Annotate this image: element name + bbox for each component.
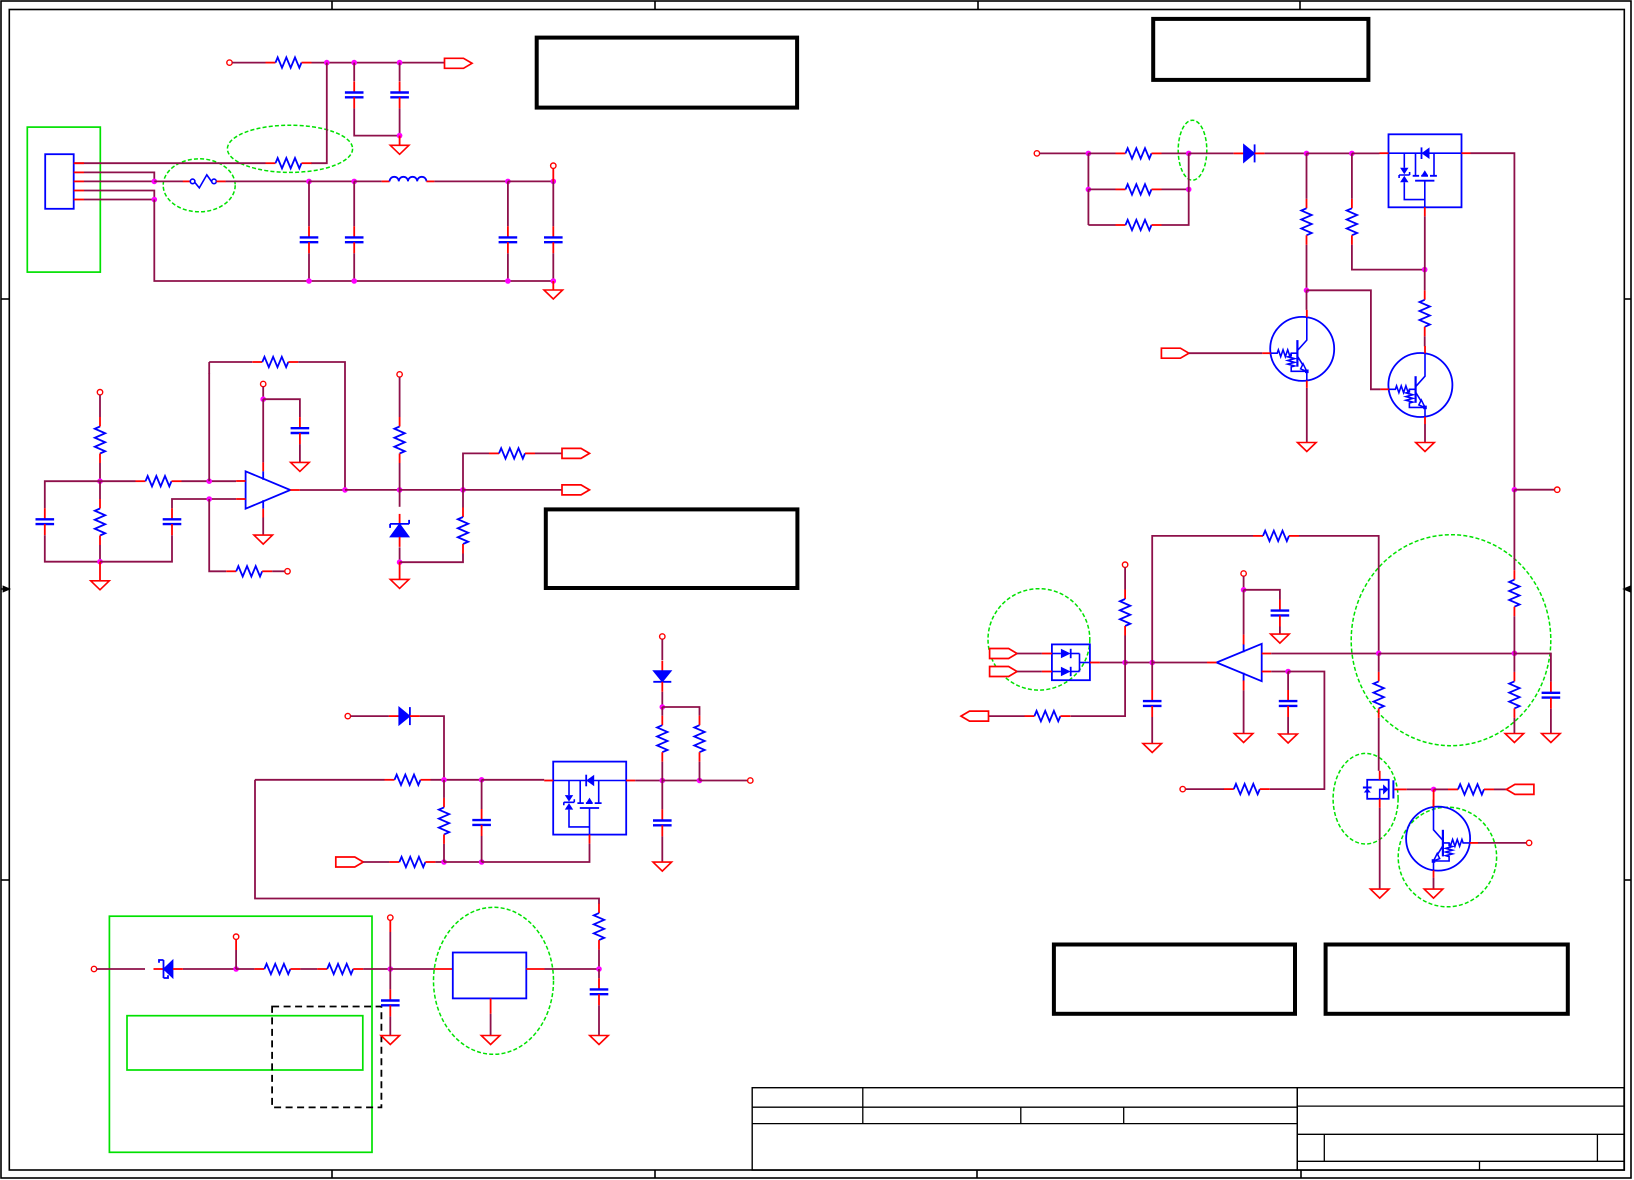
wire rail to R29 xyxy=(1378,654,1380,672)
wire V+ to C14 xyxy=(1244,590,1280,600)
title block left divider c xyxy=(1123,1107,1125,1123)
terminal T2 xyxy=(551,163,556,168)
terminal T16 V+ xyxy=(1241,571,1246,576)
terminal T8 xyxy=(748,778,753,783)
connector J1 body xyxy=(45,154,73,209)
wire T9 to D2 xyxy=(661,639,663,660)
ground GE6 xyxy=(1542,734,1561,743)
wire to T8 xyxy=(700,780,748,782)
title block right row line 1 xyxy=(1297,1105,1624,1107)
wire R15 to R16 xyxy=(300,968,317,970)
junction rail2-C3 xyxy=(306,179,312,185)
resistor R24 xyxy=(1120,590,1130,636)
green highlight box power input section xyxy=(109,916,372,1152)
resistor R15 xyxy=(254,964,300,974)
wire R11 to row xyxy=(435,861,444,863)
wire rail2 b xyxy=(508,180,553,182)
wire R1 to OUT1 flag xyxy=(312,62,445,64)
junction output-feedback xyxy=(342,487,348,493)
wire T7 to D3 xyxy=(351,715,389,717)
junction output-R10col xyxy=(397,487,403,493)
V+ stub U2 xyxy=(1243,635,1245,645)
terminal T15 xyxy=(1122,562,1127,567)
capacitor C15 xyxy=(1279,690,1298,717)
capacitor C14 xyxy=(1271,600,1290,627)
wire rail2 to C4 xyxy=(353,181,355,226)
wire rail2 to L1 xyxy=(354,180,381,182)
wire Q5 emitter to gnd xyxy=(1433,878,1435,890)
terminal T14 xyxy=(1555,487,1560,492)
ground GB4 xyxy=(390,579,409,588)
wire R7 to rail xyxy=(399,463,401,490)
wire node D1 to R18 xyxy=(1088,152,1115,154)
wire base node to Q2 base xyxy=(1307,290,1381,389)
capacitor C1 xyxy=(345,81,364,108)
diode D2 xyxy=(653,661,671,692)
wire T15 to R24 xyxy=(1124,567,1126,589)
resistor R14 xyxy=(694,716,704,762)
ground GD2 xyxy=(1416,443,1435,452)
junction rail1-C2 xyxy=(397,60,403,66)
wire V+ to C9 xyxy=(263,399,300,417)
wire C2 to gnd node xyxy=(399,108,401,135)
junction LDO out node xyxy=(596,966,602,972)
wire node to R23 xyxy=(1424,270,1426,291)
ground GD1 xyxy=(1298,443,1317,452)
title block right row line 2 xyxy=(1297,1133,1624,1135)
wire C15 to gnd xyxy=(1287,717,1289,734)
junction D2 node xyxy=(660,704,666,710)
junction feedback node xyxy=(1149,660,1155,666)
resistor R23 xyxy=(1420,290,1430,336)
wire rail2 to C6 xyxy=(552,181,554,226)
annotation box bottom-right A xyxy=(1054,945,1295,1014)
title block left row line 1 xyxy=(752,1106,1297,1108)
wire long feed to LDO xyxy=(255,780,599,904)
wire gnd return left xyxy=(154,200,309,282)
terminal T9 xyxy=(660,634,665,639)
border zone tick bottom 3 xyxy=(976,1170,978,1178)
junction bottom-C5 xyxy=(505,278,511,284)
resistor R20 xyxy=(1116,220,1162,230)
wire rail to R31 xyxy=(1513,654,1515,672)
border zone tick bottom 4 xyxy=(1300,1170,1302,1178)
terminal T1 xyxy=(227,60,232,65)
wire node to R8 bottom xyxy=(400,554,463,563)
wire N1 down to R2 xyxy=(311,63,327,164)
wire T3 to R3 xyxy=(99,395,101,417)
wire IN3 to U4 xyxy=(1017,653,1042,655)
wire R23 to Q2 collector xyxy=(1424,336,1426,346)
wire plus node loop to R27 xyxy=(1270,672,1325,790)
title block right row line 3 xyxy=(1297,1160,1624,1162)
connector J1 pin 5 xyxy=(74,199,84,201)
green highlight box inner xyxy=(127,1016,363,1070)
green highlight box connector J1 xyxy=(27,127,100,272)
wire to R20 xyxy=(1088,224,1115,226)
wire base node to Q1 collector xyxy=(1306,290,1308,310)
terminal T7 xyxy=(345,713,350,718)
annotation box top-left xyxy=(537,38,797,108)
wire node B1 to C7 xyxy=(45,481,100,508)
junction node D2b xyxy=(1186,187,1192,193)
wire node to R15 xyxy=(236,968,254,970)
terminal T5 V+ xyxy=(261,381,266,386)
capacitor C3 xyxy=(300,226,319,253)
wire out node b xyxy=(1125,662,1152,664)
regulator U3 gnd pin xyxy=(490,998,492,1013)
output flag OUT4 xyxy=(961,711,989,721)
diode D3 xyxy=(389,707,420,725)
junction source row b xyxy=(479,859,485,865)
wire rail up to R11h xyxy=(463,453,489,490)
capacitor C6 xyxy=(544,226,563,253)
output flag OUT2 xyxy=(562,485,590,495)
junction output-R8col xyxy=(460,487,466,493)
wire R19 to node D2b xyxy=(1162,188,1189,190)
border center arrow left xyxy=(1,586,9,591)
ground GE2 xyxy=(1234,734,1253,743)
junction pin5 node xyxy=(152,197,158,203)
ground GB3 xyxy=(254,535,273,544)
wire long rail down xyxy=(1513,490,1515,571)
wire R20 to node D2b xyxy=(1162,189,1189,225)
resistor R29 xyxy=(1374,672,1384,718)
junction LDO in node b xyxy=(388,966,394,972)
capacitor C16 xyxy=(1143,690,1162,717)
junction drain node xyxy=(660,778,666,784)
junction rail2-C5 xyxy=(505,179,511,185)
resistor R6 xyxy=(95,499,105,545)
wire C12 to gnd xyxy=(389,1016,391,1035)
junction rail2-C4 xyxy=(351,179,357,185)
ground GF1 xyxy=(381,1036,400,1045)
border zone tick right upper xyxy=(1624,298,1631,300)
ground GA2 xyxy=(544,290,563,299)
wire feedback to minus rail xyxy=(1299,536,1379,653)
wire U3 gnd down xyxy=(490,1014,492,1036)
junction bottom-C3 xyxy=(306,278,312,284)
wire V+ to U1 xyxy=(262,399,264,462)
wire U1 output xyxy=(300,489,345,491)
wire IN4 to U4 xyxy=(1017,671,1042,673)
annotation box mid-left xyxy=(546,509,798,588)
capacitor C7 xyxy=(36,508,55,535)
wire T13 to node D1 xyxy=(1040,152,1089,154)
wire F1 to rail2 xyxy=(226,180,309,182)
title block left divider b xyxy=(1020,1107,1022,1123)
green highlight circle dual diode xyxy=(988,589,1090,690)
wire C4 to bottom rail xyxy=(353,253,355,281)
terminal T12 xyxy=(388,915,393,920)
wire T16 down xyxy=(1243,576,1245,590)
wire C7 to bottom node xyxy=(45,535,100,562)
transistor Q2 digital NPN xyxy=(1380,346,1452,424)
green highlight ellipse node xyxy=(1178,120,1207,180)
connector J1 pin 3 xyxy=(74,180,84,182)
border center arrow right xyxy=(1624,586,1631,591)
ground GE7 xyxy=(1370,889,1389,898)
mosfet Q4 small xyxy=(1363,771,1407,808)
border zone tick top 2 xyxy=(654,1,656,10)
wire R30 to rail xyxy=(1513,616,1515,653)
junction base node Q1 xyxy=(1304,288,1310,294)
annotation box bottom-right B xyxy=(1326,945,1568,1014)
wire rail to D5 xyxy=(399,490,401,507)
wire D1 to node D3 xyxy=(1265,152,1307,154)
wire output rail a xyxy=(345,489,400,491)
wire feedback up xyxy=(1152,536,1253,663)
wire C13 to gnd xyxy=(598,1005,600,1035)
junction rail1-C1 xyxy=(351,60,357,66)
wire node to Q5 collector xyxy=(1433,789,1435,807)
V+ pin stub U1 xyxy=(262,462,264,471)
title block right divider c xyxy=(1479,1161,1481,1170)
dual diode U4 xyxy=(1042,644,1100,680)
resistor R22 xyxy=(1347,199,1357,245)
wire T10 to D4 xyxy=(97,968,145,970)
wire left long to R10 xyxy=(255,779,385,781)
wire R22 to fet source node xyxy=(1352,245,1425,270)
wire R3 to node B1 xyxy=(99,463,101,481)
stub T11 xyxy=(235,939,237,950)
wire node to Q-FET2 xyxy=(1352,152,1380,154)
resistor R16 xyxy=(317,964,363,974)
wire T1 to R1 xyxy=(232,62,265,64)
junction gate node C2 xyxy=(479,777,485,783)
output flag OUT1 xyxy=(445,58,473,68)
terminal T13 xyxy=(1034,151,1039,156)
wire U3 out to node xyxy=(545,968,600,970)
junction bottom-C4 xyxy=(351,278,357,284)
wire Q4 gate to node xyxy=(1407,788,1434,790)
wire node down to R26 xyxy=(1071,663,1126,717)
wire minus rail b xyxy=(1379,653,1515,655)
stub T2 xyxy=(552,168,554,181)
wire pin5 to node xyxy=(84,199,154,201)
wire C3 to bottom rail xyxy=(308,253,310,281)
junction LDO in node a xyxy=(233,966,239,972)
wire R27 to T17 xyxy=(1186,788,1225,790)
regulator U3 output pin xyxy=(526,968,544,970)
wire feedback up xyxy=(208,374,210,482)
ground GE1 xyxy=(1271,634,1290,643)
node N1 junction xyxy=(324,60,330,66)
mosfet module Q3 with protection xyxy=(544,762,635,844)
wire R9 to T4 xyxy=(272,570,285,572)
gnd stub B xyxy=(99,562,101,581)
green highlight circle Q5 xyxy=(1398,807,1496,907)
wire rail2 a xyxy=(309,180,354,182)
junction drain node b xyxy=(697,778,703,784)
title block left section outline xyxy=(752,1088,1297,1170)
wire pin3 to F1 xyxy=(154,180,183,182)
resistor R21 xyxy=(1301,199,1311,245)
mosfet module Q6 with protection xyxy=(1380,134,1471,216)
wire U1 V- to gnd xyxy=(262,518,264,536)
regulator U3 input pin xyxy=(434,968,452,970)
terminal T11 xyxy=(233,934,238,939)
wire to T14 xyxy=(1514,489,1554,491)
border zone tick bottom 2 xyxy=(654,1170,656,1178)
junction feedback tap xyxy=(206,478,212,484)
junction node D2 xyxy=(1186,151,1192,157)
junction source row a xyxy=(441,859,447,865)
green highlight ellipse F1 xyxy=(163,159,235,212)
connector J1 pin 4 xyxy=(74,190,84,192)
green highlight circle divider network xyxy=(1351,535,1551,746)
wire node to Q-FET xyxy=(482,779,545,781)
wire R17 to out node xyxy=(598,950,600,969)
resistor R28 xyxy=(1448,784,1494,794)
input flag IN2 xyxy=(1161,348,1189,358)
terminal T17 xyxy=(1180,786,1185,791)
wire minus rail to C17 xyxy=(1514,654,1551,682)
border zone tick right lower xyxy=(1624,879,1631,881)
resistor R19 xyxy=(1116,184,1162,194)
ground GE3 xyxy=(1279,734,1298,743)
op-amp U1 xyxy=(236,471,300,508)
resistor R12 xyxy=(439,798,449,844)
resistor R7 xyxy=(394,417,404,463)
junction node D4n xyxy=(1349,151,1355,157)
resistor R25 feedback xyxy=(1253,531,1299,541)
wire R2 to J1 pin1 xyxy=(74,162,266,164)
input flag IN4 xyxy=(990,667,1018,677)
wire C16 to gnd xyxy=(1151,717,1153,744)
wire C6 to bottom rail xyxy=(552,253,554,281)
wire C1 to gnd node xyxy=(354,108,399,135)
wire node D2b up xyxy=(1188,153,1190,189)
wire R31 to gnd xyxy=(1513,718,1515,734)
resistor R8 xyxy=(458,508,468,554)
resistor R18 xyxy=(1116,148,1162,158)
wire bottom node to C8 xyxy=(100,535,172,562)
wire rail2 to C5 xyxy=(507,181,509,226)
gnd stub A xyxy=(399,136,401,146)
wire node D3 to D4n xyxy=(1307,152,1352,154)
green highlight ellipse R2 xyxy=(227,125,352,172)
border zone tick top 3 xyxy=(977,1,979,10)
junction node D1 xyxy=(1086,151,1092,157)
capacitor C10 xyxy=(472,809,491,836)
wire C9 to gnd xyxy=(299,444,301,462)
wire output rail b xyxy=(400,489,463,491)
wire Q5 base to T18 xyxy=(1478,842,1526,844)
wire R16 to node xyxy=(363,968,390,970)
wire T11 down xyxy=(235,950,237,969)
title block right divider a xyxy=(1323,1134,1325,1161)
wire feedback right down xyxy=(298,362,345,490)
wire D5 to node xyxy=(399,547,401,562)
border zone tick top 1 xyxy=(331,1,333,10)
border zone tick bottom 1 xyxy=(331,1170,333,1178)
junction node B2 xyxy=(97,559,103,565)
fuse F1 xyxy=(183,175,226,188)
wire to R19 xyxy=(1088,188,1115,190)
gnd stub A2 xyxy=(552,281,554,290)
wire U2 +in xyxy=(1271,671,1288,673)
dashed annotation rectangle xyxy=(272,1007,381,1108)
junction minus rail b xyxy=(1512,651,1518,657)
wire rail1 to C2 xyxy=(399,63,401,82)
ground GF2 xyxy=(481,1036,500,1045)
wire to U2 output xyxy=(1152,662,1207,664)
wire node to U3 in xyxy=(390,968,434,970)
capacitor C17 xyxy=(1542,682,1561,709)
resistor R26 xyxy=(1024,711,1070,721)
wire R14 to drain node xyxy=(699,762,701,781)
wire Q4 source to gnd xyxy=(1379,808,1381,889)
resistor R5 feedback xyxy=(252,357,298,367)
border zone tick left upper xyxy=(1,298,9,300)
wire fb node to C16 xyxy=(1151,663,1153,691)
capacitor C9 xyxy=(291,417,310,444)
ground GE8 xyxy=(1424,889,1443,898)
wire rail2 to C3 xyxy=(308,181,310,226)
resistor R10 xyxy=(385,775,431,785)
junction V+ node U2 xyxy=(1241,587,1247,593)
wire C8 to inverting row xyxy=(172,499,209,508)
capacitor C12 xyxy=(381,989,400,1016)
junction diode out node xyxy=(1122,660,1128,666)
wire pin2 to pin3 node xyxy=(84,172,154,181)
junction node D3 xyxy=(1304,151,1310,157)
wire Q6 drain to long rail xyxy=(1471,153,1515,490)
wire U2 V- to gnd xyxy=(1243,690,1245,733)
terminal T4 xyxy=(285,569,290,574)
wire drain node a xyxy=(662,780,699,782)
wire R13 to drain node xyxy=(661,762,663,781)
wire D4 to node xyxy=(183,968,236,970)
junction gate node C1 xyxy=(441,777,447,783)
title block right section outline xyxy=(1297,1088,1624,1170)
junction zener node xyxy=(397,559,403,565)
connector J1 pin 2 xyxy=(74,171,84,173)
schottky diode D4 xyxy=(154,960,183,978)
terminal T6 xyxy=(397,372,402,377)
voltage regulator U3 xyxy=(453,953,527,999)
junction plus node xyxy=(1285,669,1291,675)
wire inverting row to U1 xyxy=(209,498,236,500)
title block left divider a xyxy=(862,1088,864,1124)
annotation box top-right xyxy=(1153,19,1368,80)
capacitor C5 xyxy=(499,226,518,253)
terminal T18 xyxy=(1526,840,1531,845)
wire L1 to rail2 right xyxy=(434,180,508,182)
wire node to R13 top xyxy=(661,707,663,716)
wire U4 out a xyxy=(1100,662,1125,664)
terminal T10 xyxy=(91,966,96,971)
wire C17 to gnd xyxy=(1550,709,1552,734)
input flag IN3 xyxy=(990,649,1018,659)
wire tap down to R9 xyxy=(209,499,226,571)
wire bottom rail xyxy=(309,280,553,282)
ground GF3 xyxy=(590,1036,609,1045)
green highlight ellipse U3 regulator xyxy=(434,907,554,1054)
resistor R1 xyxy=(266,57,312,67)
junction long rail T14 xyxy=(1512,487,1518,493)
wire pin3 to node xyxy=(84,180,154,182)
resistor R17 xyxy=(594,904,604,950)
wire C14 to gnd xyxy=(1279,627,1281,635)
wire node to R28 xyxy=(1434,788,1448,790)
junction minus rail a xyxy=(1376,651,1382,657)
wire C10 to row xyxy=(481,836,483,862)
transistor Q5 digital NPN xyxy=(1406,800,1478,878)
wire R10 to node xyxy=(431,779,482,781)
wire T6 to R7v xyxy=(399,377,401,417)
